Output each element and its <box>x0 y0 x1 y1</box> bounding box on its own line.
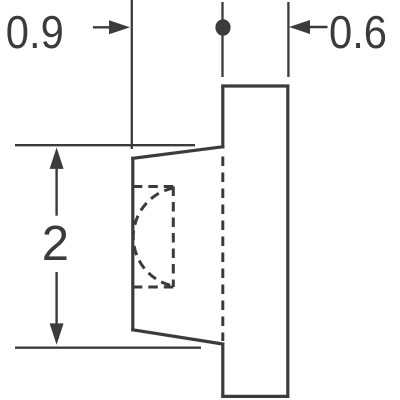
hidden edge body/lens junction (dashed) <box>221 157 224 342</box>
lens housing trapezoid <box>133 147 223 344</box>
extension line trapezoid top <box>15 144 195 146</box>
hidden cavity rectangle (dashed) <box>133 187 174 288</box>
extension line body right face <box>287 2 289 77</box>
arrowhead up <box>50 148 64 169</box>
arrowhead down <box>50 323 64 344</box>
svg-text:0.6: 0.6 <box>329 6 387 58</box>
extension line trapezoid bottom <box>15 347 201 349</box>
svg-text:2: 2 <box>42 217 69 271</box>
LED body rectangle <box>221 86 289 396</box>
dimension line 2 (upper segment) <box>55 160 57 216</box>
dimension line 2 (lower segment) <box>55 272 57 335</box>
dimension arrow 0.6 <box>289 20 328 34</box>
hidden lens dome (dashed arc) <box>133 188 173 286</box>
dimension arrow 0.9 <box>93 20 130 34</box>
dimension dot <box>215 19 230 36</box>
svg-text:0.9: 0.9 <box>6 6 64 58</box>
extension line lens front face <box>131 0 133 149</box>
extension line body left face <box>221 2 223 77</box>
